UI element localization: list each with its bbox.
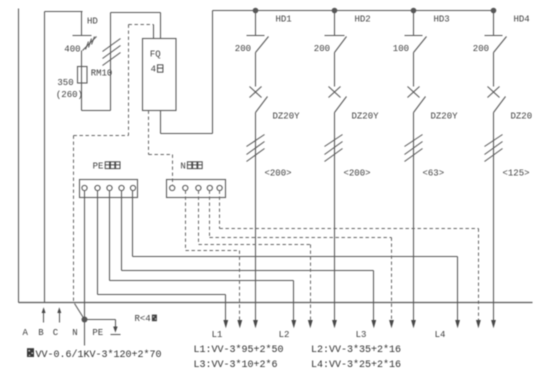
node: bus junction HD2: [332, 8, 338, 14]
switch HD2: [325, 11, 347, 53]
breaker DZ20: [488, 53, 506, 113]
svg-text:PE: PE: [92, 328, 103, 338]
svg-text:L2:VV-3*35+2*16: L2:VV-3*35+2*16: [311, 344, 401, 356]
svg-text:HD2: HD2: [355, 14, 371, 24]
arrow: incoming phase B: [42, 307, 46, 322]
3-phase slashes on feeder L1: [247, 135, 265, 162]
svg-text:L4:VV-3*25+2*16: L4:VV-3*25+2*16: [311, 359, 401, 371]
switch HD3: [405, 11, 427, 53]
svg-text:A: A: [22, 328, 28, 338]
svg-text:N: N: [180, 162, 185, 172]
label PE terminal strip: [93, 162, 120, 172]
svg-text:200: 200: [473, 44, 489, 54]
arrow: L3 N: [389, 320, 394, 328]
wire: main top bus: [213, 10, 494, 12]
svg-text:L4: L4: [435, 330, 446, 340]
svg-text:L3:VV-3*10+2*6: L3:VV-3*10+2*6: [194, 359, 278, 371]
arrow: L4 phase out: [491, 320, 496, 328]
svg-text:FQ: FQ: [150, 49, 161, 59]
label incoming cable spec: [27, 348, 162, 361]
wire: FQ N output dashed: [149, 111, 173, 186]
svg-text:200: 200: [314, 44, 330, 54]
svg-text:<63>: <63>: [423, 168, 445, 178]
wire: horizontal to FQ: [111, 12, 161, 14]
wire: feeder L4 phase drop: [493, 113, 495, 321]
svg-text:L3: L3: [356, 330, 367, 340]
arrow: L1 phase out: [253, 320, 258, 328]
3-phase slashes on incoming riser: [103, 39, 121, 66]
arrow: incoming phase C: [57, 307, 61, 322]
arrow: L1 N: [237, 320, 242, 328]
arrow: L3 PE: [371, 320, 376, 328]
breaker DZ20Y: [408, 53, 426, 113]
wire: N to L2 dashed: [199, 191, 311, 321]
svg-text:RM10: RM10: [91, 69, 113, 79]
wire: PEN down to cable: [84, 320, 86, 346]
wire: bottom of incoming loop: [82, 110, 111, 112]
wire: PE to L4: [133, 191, 458, 321]
arrow: L1 PE: [223, 320, 228, 328]
wire: PE to L3: [122, 191, 374, 321]
arrow: L3 phase out: [411, 320, 416, 328]
svg-text:400: 400: [64, 44, 80, 54]
wire: N to PEN bond diagonal: [75, 304, 85, 320]
svg-text:L1: L1: [212, 330, 223, 340]
svg-text:HD3: HD3: [434, 14, 450, 24]
switch HD1: [247, 11, 269, 53]
svg-text:<200>: <200>: [265, 168, 292, 178]
fuse RM10: [78, 67, 88, 84]
wire: N dashed riser: [128, 25, 130, 136]
label 4-pole: [151, 64, 163, 74]
wire: N to L3 dashed: [210, 191, 392, 321]
wire: N drop into FQ: [153, 25, 155, 39]
wire: bottom horizontal rail: [19, 302, 533, 304]
3-phase slashes on feeder L3: [405, 135, 423, 162]
svg-text:N: N: [72, 328, 77, 338]
svg-text:R<4: R<4: [135, 314, 151, 324]
svg-text:B: B: [38, 328, 44, 338]
breaker DZ20Y: [250, 53, 268, 113]
wire: N to L4 dashed: [220, 191, 479, 321]
label R<4 ohm: [135, 314, 157, 324]
switch HD (incoming disconnect): [73, 36, 97, 51]
svg-text:200: 200: [235, 44, 251, 54]
node: bus junction HD4: [491, 8, 497, 14]
wire: incoming N dashed riser: [73, 136, 75, 303]
wire: feeder L1 phase drop: [255, 113, 257, 321]
svg-text:L2: L2: [279, 330, 290, 340]
wire: N dashed top horizontal: [129, 24, 154, 26]
wire: HD blade to fuse: [81, 51, 83, 67]
svg-text:<200>: <200>: [344, 168, 371, 178]
wire: feeder L2 phase drop: [334, 113, 336, 321]
svg-text:(260): (260): [56, 90, 83, 100]
wire: phase B riser: [44, 12, 46, 303]
wire: incoming loop riser: [110, 13, 112, 111]
wire: feeder L3 phase drop: [413, 113, 415, 321]
wire: FQ phase output to bus riser: [161, 11, 213, 134]
terminal strip PE: [80, 180, 138, 198]
node: bus junction HD3: [411, 8, 417, 14]
arrow: L2 PE: [291, 320, 296, 328]
svg-text:350: 350: [57, 78, 73, 88]
svg-text:VV-0.6/1KV-3*120+2*70: VV-0.6/1KV-3*120+2*70: [36, 349, 162, 361]
wire: PE to L2: [110, 191, 294, 321]
wire: top-left horizontal to HD switch: [45, 11, 83, 13]
arrow: L4 PE: [455, 320, 460, 328]
svg-text:HD: HD: [87, 16, 98, 26]
3-phase slashes on feeder L4: [485, 135, 503, 162]
wire: earthing tail: [85, 320, 116, 327]
switch HD4: [485, 11, 507, 53]
svg-text:4: 4: [151, 64, 156, 74]
arrow: L2 phase out: [332, 320, 337, 328]
label N terminal strip: [180, 162, 202, 172]
ground electrode symbol: [111, 327, 121, 335]
3-phase slashes on feeder L2: [325, 135, 343, 162]
svg-text:DZ20Y: DZ20Y: [352, 111, 380, 121]
svg-text:PE: PE: [93, 162, 104, 172]
wire: PE to L1: [98, 191, 226, 321]
node: bus junction HD1: [253, 8, 259, 14]
arrow: L2 N: [308, 320, 313, 328]
wire: drop into HD switch: [81, 12, 83, 36]
wire: phase A riser: [18, 9, 20, 303]
breaker FQ (4-pole): [143, 39, 177, 111]
node: PEN bond: [82, 317, 88, 323]
svg-text:DZ20Y: DZ20Y: [273, 111, 301, 121]
wire: N to L1 dashed: [186, 191, 240, 321]
svg-text:HD4: HD4: [514, 14, 530, 24]
svg-text:HD1: HD1: [276, 14, 292, 24]
terminal strip N: [167, 180, 226, 198]
wire: N dashed horizontal: [74, 135, 129, 137]
svg-text:100: 100: [393, 44, 409, 54]
wire: PE bond drop: [84, 191, 86, 320]
wire: drop into FQ: [160, 13, 162, 39]
svg-text:L1:VV-3*95+2*50: L1:VV-3*95+2*50: [194, 344, 284, 356]
breaker DZ20Y: [329, 53, 347, 113]
wire: fuse down: [81, 83, 83, 111]
svg-text:<125>: <125>: [503, 168, 530, 178]
arrow: L4 N: [476, 320, 481, 328]
svg-text:C: C: [53, 328, 59, 338]
svg-text:DZ20Y: DZ20Y: [431, 111, 459, 121]
svg-text:DZ20: DZ20: [511, 111, 533, 121]
